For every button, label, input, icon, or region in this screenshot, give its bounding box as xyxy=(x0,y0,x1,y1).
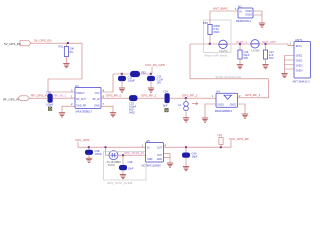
svg-text:VCC: VCC xyxy=(94,92,99,95)
svg-text:18pF: 18pF xyxy=(192,155,198,159)
junction L xyxy=(220,146,222,148)
wire U1 pin4 to cluster riser xyxy=(101,74,113,92)
svg-text:RF01: RF01 xyxy=(296,45,303,48)
wire C37 drop xyxy=(265,44,267,50)
svg-text:PESD5V0L1: PESD5V0L1 xyxy=(236,19,252,23)
DNI mark xyxy=(48,107,51,110)
resistor R31 xyxy=(59,45,75,57)
svg-text:TP5: TP5 xyxy=(217,133,223,137)
wire J1 gnd pins xyxy=(285,56,295,74)
svg-text:ANT-SMA-E-C: ANT-SMA-E-C xyxy=(293,80,311,84)
wire resistor drop xyxy=(65,43,67,46)
wire L2 to gnd xyxy=(185,111,187,117)
svg-text:GPS_RF_2: GPS_RF_2 xyxy=(182,94,198,98)
wire cluster rail xyxy=(113,73,152,75)
svg-text:5V_GPS_EN: 5V_GPS_EN xyxy=(4,42,21,46)
DNI mark C34 xyxy=(165,108,168,111)
pin 2 stub + wire xyxy=(62,106,75,112)
junction A xyxy=(67,42,69,44)
wire U1 pin7 gnd xyxy=(101,106,113,112)
junction G xyxy=(265,43,267,45)
ground (J1) xyxy=(281,74,287,78)
diode D1 xyxy=(236,4,253,23)
wire C32 to gnd xyxy=(150,81,152,88)
junction H xyxy=(88,146,90,148)
ground (C37) xyxy=(262,65,268,69)
wire C40 gnd xyxy=(185,158,187,166)
ground (C40) xyxy=(183,167,189,171)
wire C36 gnd xyxy=(239,59,241,64)
svg-text:16V: 16V xyxy=(157,80,162,84)
wire C34 to U4 xyxy=(170,97,217,99)
capacitor C31 xyxy=(119,75,136,82)
wire RF in xyxy=(30,97,48,99)
net VCC_PA riser xyxy=(151,67,153,74)
svg-text:TCXO: TCXO xyxy=(108,163,115,167)
junction K xyxy=(185,146,187,148)
svg-text:GND1: GND1 xyxy=(217,104,224,107)
wire U5 gnd stubs xyxy=(164,153,171,162)
svg-text:8pF: 8pF xyxy=(163,104,168,108)
svg-text:GND: GND xyxy=(147,158,153,161)
capacitor C34 xyxy=(163,90,169,108)
ground (C32) xyxy=(148,88,154,92)
wire riser right S-jog xyxy=(48,43,82,92)
wire C39 drop xyxy=(122,155,124,165)
svg-text:RF_GPS_IN: RF_GPS_IN xyxy=(3,98,19,102)
port RF_GPS_IN xyxy=(3,96,30,102)
svg-text:GPS_RF_3: GPS_RF_3 xyxy=(245,93,261,97)
capacitor C40 xyxy=(183,152,198,159)
wire C32 drop xyxy=(150,74,152,76)
wire antenna rail xyxy=(190,44,294,46)
svg-text:PWR-D: PWR-D xyxy=(76,92,84,95)
wire C38 gnd xyxy=(88,154,90,158)
svg-text:100pF: 100pF xyxy=(128,78,136,82)
svg-text:0603: 0603 xyxy=(214,30,220,34)
svg-text:FB2: FB2 xyxy=(141,70,146,74)
inductor L3 xyxy=(219,40,228,53)
junction I xyxy=(105,146,107,148)
inductor FB2 xyxy=(131,70,147,76)
junction B xyxy=(121,73,123,75)
wire bead riser xyxy=(209,11,211,43)
wire cap to U1 xyxy=(53,97,76,99)
svg-text:C30: C30 xyxy=(46,90,51,94)
svg-text:RF_IN_1: RF_IN_1 xyxy=(54,94,66,98)
ground (C38) xyxy=(86,158,92,162)
pin 3 stub xyxy=(48,91,75,93)
svg-text:ANT1: ANT1 xyxy=(295,38,303,42)
svg-text:GND: GND xyxy=(94,105,100,108)
wire vcc gps rail xyxy=(78,140,231,147)
resistor R32 xyxy=(217,133,223,144)
connector J1 xyxy=(293,38,311,84)
svg-text:GND1: GND1 xyxy=(245,10,252,13)
svg-text:50V: 50V xyxy=(269,56,274,60)
svg-text:IN: IN xyxy=(147,146,150,149)
tcxo box xyxy=(104,151,146,185)
wire C31 drop xyxy=(121,74,123,76)
ground (R31) xyxy=(63,64,69,68)
svg-text:FB3: FB3 xyxy=(203,21,208,25)
crystal X1 TCXO xyxy=(107,151,121,167)
resistor FB3 xyxy=(203,21,220,35)
inductor L2 shunt xyxy=(178,98,188,111)
arrow flag xyxy=(192,102,198,104)
wire C31 to gnd xyxy=(121,81,123,88)
capacitor C39 xyxy=(120,160,134,171)
junction D xyxy=(185,97,187,99)
ground (C39) xyxy=(120,175,126,179)
ground (U1 pin2) xyxy=(59,113,65,117)
inductor L4 xyxy=(251,40,260,53)
ground (C31) xyxy=(119,88,125,92)
ground (U4 right) xyxy=(242,114,248,118)
ground (D1) xyxy=(259,23,265,27)
svg-text:GND4: GND4 xyxy=(296,69,303,72)
svg-text:0402: 0402 xyxy=(129,111,135,115)
svg-text:GND2: GND2 xyxy=(296,59,303,62)
shield box xyxy=(204,20,231,58)
svg-text:GND1: GND1 xyxy=(296,54,303,57)
svg-text:VCC_PA_GPS: VCC_PA_GPS xyxy=(145,63,165,67)
svg-text:OUT: OUT xyxy=(157,154,163,157)
svg-text:GPS_RF_1: GPS_RF_1 xyxy=(141,94,157,98)
svg-text:C34: C34 xyxy=(163,90,168,94)
wire C33 to C34 xyxy=(138,97,165,99)
svg-text:GPS_RF_0: GPS_RF_0 xyxy=(106,94,122,98)
capacitor C38 xyxy=(86,149,103,156)
svg-text:MAX2659ELT: MAX2659ELT xyxy=(76,110,93,114)
svg-text:RF_IN: RF_IN xyxy=(93,98,100,101)
junction C xyxy=(150,73,152,75)
ground (U1 pin7) xyxy=(110,113,116,117)
svg-text:B39162B8813: B39162B8813 xyxy=(215,109,233,113)
svg-text:ANT_BIAS: ANT_BIAS xyxy=(213,6,228,10)
svg-text:GND2: GND2 xyxy=(245,14,252,17)
svg-text:OUT: OUT xyxy=(157,146,163,149)
svg-text:L3 27n: L3 27n xyxy=(220,49,228,53)
svg-text:VCC_GPS: VCC_GPS xyxy=(75,138,89,142)
junction E xyxy=(209,43,211,45)
svg-text:10K: 10K xyxy=(70,47,75,51)
svg-text:RF_OUT: RF_OUT xyxy=(76,98,86,101)
junction J xyxy=(122,154,124,156)
ground (U5) xyxy=(167,163,173,167)
wire 4th connector line xyxy=(190,44,269,79)
svg-text:GPS_TCXO_16.368: GPS_TCXO_16.368 xyxy=(107,181,133,185)
buffer U5 xyxy=(142,139,167,168)
wire C37 gnd xyxy=(265,59,267,64)
svg-text:5V_GPS_EN: 5V_GPS_EN xyxy=(34,39,52,43)
ground (C36) xyxy=(237,65,243,69)
svg-text:IN: IN xyxy=(240,11,243,14)
op-amp U1 LNA xyxy=(71,84,105,114)
wire C36 drop xyxy=(239,44,241,50)
capacitor C36 xyxy=(238,50,250,60)
wire C38 drop xyxy=(88,147,90,150)
wire to X1 xyxy=(106,147,110,155)
wire top feed xyxy=(210,10,238,12)
wire X1 out xyxy=(118,154,146,156)
port 5V_GPS_EN xyxy=(4,41,31,47)
wire U4 gnd left xyxy=(205,104,216,118)
svg-text:W 4th connector line: W 4th connector line xyxy=(216,75,242,79)
svg-text:Place in RF shield: Place in RF shield xyxy=(205,54,228,58)
wire resistor to ground xyxy=(65,57,67,64)
svg-text:10nF: 10nF xyxy=(128,166,134,170)
wire U4 out riser xyxy=(238,79,269,98)
svg-text:GPS_ANT: GPS_ANT xyxy=(262,40,276,44)
svg-text:100nF: 100nF xyxy=(95,152,103,156)
svg-text:GND3: GND3 xyxy=(296,64,303,67)
ground (U4 left) xyxy=(202,118,208,122)
wire 5V to riser xyxy=(31,42,82,44)
svg-text:VCC_GPS_RF: VCC_GPS_RF xyxy=(229,137,249,141)
svg-text:VANT_1: VANT_1 xyxy=(236,40,247,44)
svg-text:C39: C39 xyxy=(128,160,133,164)
wire C40 drop xyxy=(185,147,187,153)
junction F xyxy=(239,43,241,45)
svg-text:R31: R31 xyxy=(59,45,64,49)
ground (L2) xyxy=(183,118,189,122)
svg-text:100pF: 100pF xyxy=(46,102,54,106)
wire U1 out xyxy=(101,97,130,99)
capacitor C37 xyxy=(263,50,274,60)
svg-text:GND2: GND2 xyxy=(230,104,237,107)
wire C39 gnd xyxy=(122,170,124,175)
capacitor C30 xyxy=(46,90,54,106)
capacitor C33 xyxy=(129,96,137,115)
capacitor C32 xyxy=(148,74,164,84)
wire R32 stub xyxy=(220,145,222,148)
svg-text:GND: GND xyxy=(157,158,163,161)
wire D1 gnd xyxy=(253,11,262,23)
svg-text:50V: 50V xyxy=(244,56,249,60)
filter U4 xyxy=(212,90,241,113)
wire U4 gnd right xyxy=(238,104,246,114)
svg-text:L4 33n: L4 33n xyxy=(252,49,260,53)
svg-text:GND_RF: GND_RF xyxy=(76,105,86,108)
svg-text:NC7WV125K8X: NC7WV125K8X xyxy=(142,164,161,168)
